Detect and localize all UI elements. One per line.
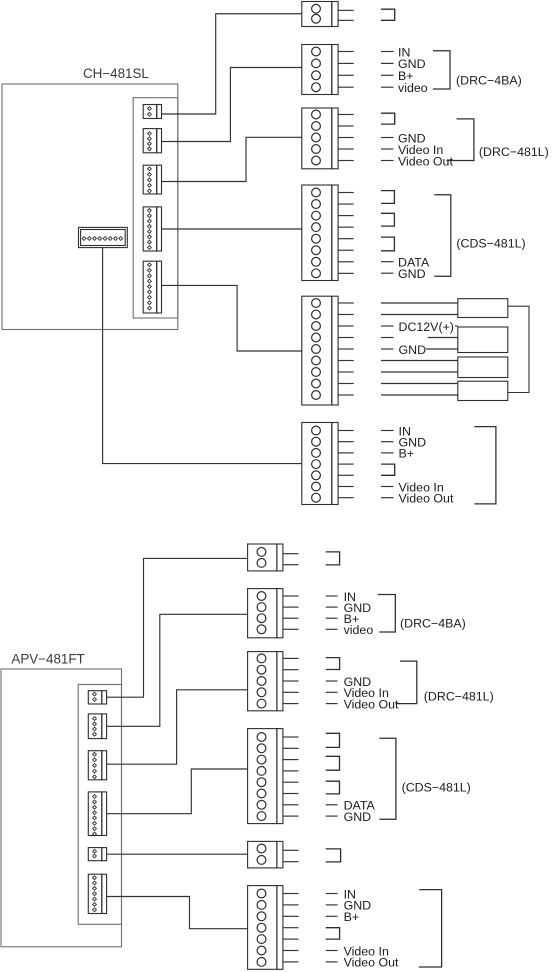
plug P6 (7-pin) [302, 423, 354, 505]
label GND (P12) [344, 899, 372, 913]
connector J8 (5-pin) on APV-481FT [88, 751, 106, 780]
jumper on P4 pins 3-4 [381, 213, 394, 226]
wire J5 to P5 [162, 285, 302, 351]
connector J2 (4-pin) on CH-481SL [143, 129, 161, 153]
lead line Video Out (P6 pin7) [381, 497, 394, 499]
jumper on P6 pins 4-5 [381, 464, 395, 475]
label DATA (P10) [344, 799, 376, 813]
wire P5 pin6 to box K3 [381, 360, 458, 362]
connector J1 (2-pin) on CH-481SL [143, 105, 161, 119]
group bracket for boxes K1-K4 [508, 306, 529, 392]
wire P5 pin9 to box K4 [381, 394, 458, 396]
group bracket DRC-481L (bottom) [398, 661, 416, 704]
svg-text:video: video [344, 623, 374, 637]
label (DRC-481L) [479, 145, 549, 159]
connector J11 (7-pin) on APV-481FT [88, 874, 106, 913]
svg-text:GND: GND [344, 810, 372, 824]
label Video Out (P9) [344, 697, 399, 711]
unit box APV-481FT [1, 669, 122, 947]
wire J2 to P2 [162, 68, 302, 142]
label (CDS-481L) bottom [402, 781, 471, 795]
svg-text:Video Out: Video Out [344, 697, 399, 711]
wire J4 to P4 [162, 228, 302, 230]
plug P12 (7-pin) [248, 886, 299, 970]
external box K3 [458, 357, 508, 378]
label IN (P2) [398, 45, 410, 59]
lead line Video Out to bracket [447, 160, 456, 162]
svg-text:video: video [398, 81, 428, 95]
label IN (P8) [344, 590, 356, 604]
jumper on P4 pins 5-6 [381, 237, 394, 251]
wire P5 pin4 to box K2 [428, 337, 458, 339]
svg-text:GND: GND [398, 267, 426, 281]
svg-text:Video Out: Video Out [399, 492, 454, 506]
external box K1 [458, 299, 508, 318]
connector J10 (2-pin) on APV-481FT [88, 848, 106, 861]
svg-text:APV−481FT: APV−481FT [11, 651, 84, 666]
lead line Video Out (P9 pin5) [326, 703, 338, 705]
group bracket DRC-4BA (bottom) [378, 595, 396, 633]
jumper on P1 pins 1-2 [381, 9, 395, 20]
connector J9 (8-pin) on APV-481FT [88, 792, 106, 836]
jumper on P3 pins 1-2 [381, 113, 395, 124]
plug P3 (5-pin) [302, 108, 354, 169]
wire J8 to P9 [106, 690, 247, 764]
wire GND to box K2 [426, 348, 458, 350]
label Video Out (P3) [398, 154, 453, 168]
label Video In (P6) [399, 480, 444, 494]
group bracket P12 monitor [419, 890, 442, 967]
lead line IN (P6 pin1) [381, 430, 394, 432]
jumper on P11 pins 1-2 [326, 849, 341, 862]
svg-text:(DRC−4BA): (DRC−4BA) [400, 616, 466, 630]
svg-text:GND: GND [399, 343, 427, 357]
plug P1 (2-pin) [302, 2, 354, 27]
label GND (P9) [344, 675, 372, 689]
connector J4 (8-pin) on CH-481SL [143, 207, 161, 251]
lead line Video Out (P3 pin5) [381, 160, 394, 162]
plug P2 (4-pin) [302, 45, 354, 95]
wire J7 to P8 [106, 614, 247, 726]
lead line IN (P2 pin1) [381, 51, 394, 53]
wire P5 pin1 to box K1 [381, 302, 458, 304]
svg-text:B+: B+ [399, 447, 415, 461]
lead line B+ (P2 pin3) [381, 74, 394, 76]
svg-text:DC12V(+): DC12V(+) [399, 320, 454, 334]
label Video In (P3) [398, 143, 443, 157]
label B+ (P12) [344, 910, 360, 924]
label CH-481SL [83, 66, 149, 81]
wire DIP connector to P6 [103, 248, 302, 464]
lead line GND (P12 pin2) [326, 904, 338, 906]
lead line B+ (P12 pin3) [326, 915, 338, 917]
svg-text:(DRC−481L): (DRC−481L) [424, 690, 494, 704]
lead line DATA (P4 pin7) [381, 261, 394, 263]
connector J5 (9-pin) on CH-481SL [143, 261, 161, 313]
external box K2 [458, 327, 508, 353]
jumper on P10 pins 5-6 [326, 781, 340, 794]
label Video In (P12) [344, 944, 389, 958]
svg-text:(CDS−481L): (CDS−481L) [402, 781, 471, 795]
wire J11 to P12 [106, 897, 247, 929]
label GND (P4) [398, 267, 426, 281]
plug P11 (2-pin) [248, 841, 299, 868]
svg-text:(DRC−481L): (DRC−481L) [479, 145, 549, 159]
svg-text:Video Out: Video Out [344, 956, 399, 970]
group bracket DRC-481L [455, 119, 474, 161]
jumper on P10 pins 1-2 [326, 733, 340, 747]
lead line Video In (P9 pin4) [326, 691, 338, 693]
label GND (P3) [398, 131, 426, 145]
label (DRC-481L) bottom [424, 690, 494, 704]
label video (P8) [344, 623, 374, 637]
wire J10 to P11 [106, 853, 247, 855]
external box K4 [458, 381, 508, 400]
lead line GND (P10 pin8) [326, 815, 338, 817]
unit box CH-481SL [2, 84, 178, 330]
lead line GND (P4 pin8) [381, 272, 394, 274]
plug P4 (8-pin) [302, 185, 354, 281]
wire J3 to P3 [162, 137, 302, 181]
wire J1 to P1 [162, 14, 302, 114]
wire J6 to P7 [106, 558, 247, 697]
label GND (P5) [399, 343, 427, 357]
lead line IN (P8 pin1) [326, 595, 338, 597]
lead line Video In (P12 pin6) [326, 950, 338, 952]
plug P7 (2-pin) [248, 544, 299, 571]
lead line video (P2 pin4) [381, 86, 394, 88]
label (DRC-4BA) bottom [400, 616, 466, 630]
lead line Video In (P3 pin4) [381, 148, 394, 150]
label IN (P6) [399, 424, 411, 438]
jumper on P12 pins 4-5 [326, 928, 340, 939]
lead line GND (P2 pin2) [381, 62, 394, 64]
plug P9 (5-pin) [248, 652, 299, 711]
label APV-481FT [11, 651, 84, 666]
wire J9 to P10 [106, 769, 247, 814]
lead line GND (P6 pin2) [381, 441, 394, 443]
wire DC12V(+) to box K2 [455, 325, 458, 327]
label B+ (P6) [399, 447, 415, 461]
lead line Video Out to bracket (bottom) [396, 703, 400, 705]
svg-text:B+: B+ [344, 910, 360, 924]
wire P5 pin8 to box K4 [381, 383, 458, 385]
group bracket CDS-481L [434, 195, 451, 276]
jumper on P4 pins 1-2 [381, 191, 394, 204]
lead line Video In (P6 pin6) [381, 486, 394, 488]
label GND (P6) [399, 436, 427, 450]
label Video In (P9) [344, 686, 389, 700]
svg-text:CH−481SL: CH−481SL [83, 66, 149, 81]
connector J6 (2-pin) on APV-481FT [88, 691, 106, 704]
wire P5 pin2 to box K1 [381, 314, 458, 316]
label (DRC-4BA) [456, 74, 522, 88]
label B+ (P2) [398, 69, 414, 83]
label GND (P10) [344, 810, 372, 824]
label DC12V(+) [399, 320, 454, 334]
svg-text:Video Out: Video Out [398, 154, 453, 168]
jumper on P10 pins 3-4 [326, 756, 340, 770]
lead line GND (P5 pin5) [381, 348, 394, 350]
group bracket P6 monitor [474, 427, 496, 504]
label IN (P12) [344, 887, 356, 901]
label GND (P2) [398, 57, 426, 71]
label DATA (P4) [398, 256, 430, 270]
lead line GND (P8 pin2) [326, 606, 338, 608]
jumper on P7 pins 1-2 [326, 552, 340, 565]
lead line B+ (P8 pin3) [326, 617, 338, 619]
connector panel of CH-481SL [133, 98, 178, 318]
lead line DC12V(+) (P5 pin3) [381, 325, 394, 327]
connector J7 (4-pin) on APV-481FT [88, 714, 106, 739]
label GND (P8) [344, 601, 372, 615]
label video (P2) [398, 81, 428, 95]
jumper on P9 pins 1-2 [326, 658, 340, 670]
connector J3 (5-pin) on CH-481SL [143, 165, 161, 194]
lead line GND (P9 pin3) [326, 680, 338, 682]
lead line GND (P3 pin3) [381, 137, 394, 139]
plug P5 (9-pin) [302, 296, 354, 405]
svg-text:(CDS−481L): (CDS−481L) [456, 237, 525, 251]
plug P10 (8-pin) [248, 729, 299, 824]
label Video Out (P6) [399, 492, 454, 506]
connector panel of APV-481FT [78, 685, 121, 925]
lead line B+ (P6 pin3) [381, 452, 394, 454]
label B+ (P8) [344, 612, 360, 626]
lead line IN (P12 pin1) [326, 893, 338, 895]
wire P5 pin7 to box K3 [381, 371, 458, 373]
label (CDS-481L) [456, 237, 525, 251]
lead line P5 pin4 [381, 337, 394, 339]
group bracket CDS-481L (bottom) [379, 738, 396, 819]
group bracket DRC-4BA [433, 51, 450, 89]
plug P8 (4-pin) [248, 589, 299, 638]
label Video Out (P12) [344, 956, 399, 970]
lead line DATA (P10 pin7) [326, 804, 338, 806]
svg-text:(DRC−4BA): (DRC−4BA) [456, 74, 522, 88]
lead line video (P8 pin4) [326, 628, 338, 630]
DIP connector (8-hole) in CH-481SL [79, 227, 128, 247]
lead line Video Out (P12 pin7) [326, 961, 338, 963]
